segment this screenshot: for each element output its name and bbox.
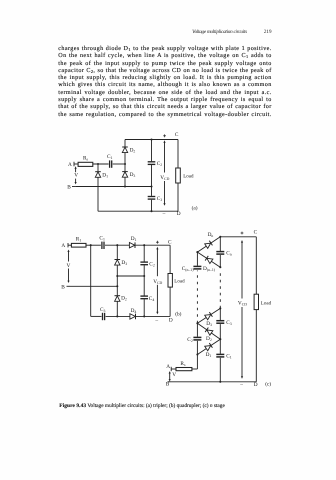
node B (a) (72, 186, 76, 188)
svg-text:D: D (254, 382, 258, 388)
svg-text:B: B (166, 382, 170, 388)
wire top rail (c) (220, 236, 256, 238)
wire bottom bypass (a) (98, 210, 178, 212)
wire bottom line right (b) (136, 315, 171, 317)
svg-text:D: D (177, 211, 181, 217)
capacitor Cn-1 (193, 252, 201, 269)
svg-text:Load: Load (261, 300, 272, 306)
capacitor C4 (b) (140, 276, 148, 316)
load (c) (254, 294, 258, 309)
svg-text:Cn: Cn (226, 250, 232, 256)
svg-text:D2: D2 (130, 148, 136, 154)
diode D3 (b) (115, 245, 121, 286)
svg-text:D4: D4 (131, 308, 137, 314)
svg-text:C: C (254, 230, 258, 236)
resistor R1 (71, 243, 86, 247)
diode D3 (122, 164, 128, 187)
diode D1 (c) (197, 339, 220, 354)
node left bottom (c) (196, 353, 198, 355)
svg-text:D1: D1 (131, 236, 137, 242)
wire top rail (a) (125, 138, 178, 140)
node left mid (c) (196, 322, 198, 324)
wire right rail (c) (255, 237, 257, 382)
diode Dn (197, 237, 220, 252)
svg-text:R1: R1 (76, 237, 82, 243)
node A (b) (67, 243, 69, 247)
node right mid (c) (219, 307, 221, 309)
svg-text:V: V (74, 173, 78, 179)
svg-text:(a): (a) (192, 205, 198, 211)
dashed left column (c) (196, 271, 198, 324)
svg-text:C2: C2 (149, 262, 155, 268)
svg-text:VCD: VCD (160, 175, 169, 181)
capacitor C2 (c) (193, 323, 201, 354)
svg-text:Load: Load (183, 174, 194, 180)
label plus (b) (156, 241, 159, 244)
svg-text:D: D (169, 318, 173, 324)
diode D1 (95, 164, 101, 211)
label plus (a) (163, 134, 166, 137)
diode D2 (b) (115, 286, 121, 316)
node right lower (c) (219, 338, 221, 340)
wire R to column (c) (192, 355, 198, 370)
svg-text:C(n–1): C(n–1) (182, 266, 195, 272)
svg-text:Dn: Dn (208, 232, 214, 238)
svg-text:C1: C1 (99, 236, 105, 242)
diode D2 (122, 140, 128, 165)
svg-text:D1: D1 (206, 352, 212, 358)
svg-text:C3: C3 (157, 196, 163, 202)
diode D2 (c) (197, 323, 220, 339)
node left top (c) (196, 251, 198, 253)
source arrow V (b) (67, 250, 69, 284)
wire right rail (b) (169, 245, 171, 316)
svg-text:C4: C4 (149, 296, 155, 302)
svg-text:C3: C3 (226, 320, 232, 326)
svg-text:D3: D3 (206, 321, 212, 327)
wire left column (b) (90, 245, 92, 316)
wire R to C1 (93, 163, 109, 165)
svg-text:C2: C2 (187, 337, 193, 343)
svg-text:D3: D3 (121, 260, 127, 266)
wire R to C1 (b) (86, 244, 101, 246)
svg-text:A: A (166, 364, 170, 370)
svg-text:B: B (61, 285, 65, 291)
wire A to R (c) (171, 368, 176, 370)
svg-text:–: – (162, 211, 166, 217)
dashed right column (c) (219, 269, 221, 308)
diode D4 (b) (130, 314, 136, 320)
svg-text:Rs: Rs (180, 361, 186, 367)
svg-text:(c): (c) (265, 382, 271, 388)
wire B rail (a) (76, 185, 153, 187)
node top (c) (219, 236, 221, 238)
svg-text:C3: C3 (100, 307, 106, 313)
capacitor C2 (b) (140, 245, 148, 276)
capacitor Cn (216, 237, 224, 267)
resistor Rs (78, 162, 93, 166)
wire bottom rail (c) (171, 381, 256, 383)
wire mid link (b) (117, 275, 145, 277)
svg-text:C: C (168, 239, 172, 245)
load (a) (176, 168, 181, 183)
wire bottom line mid (b) (106, 315, 131, 317)
svg-text:V: V (172, 372, 176, 378)
wire B rail (b) (70, 285, 118, 287)
source arrow V (c) (169, 371, 171, 381)
svg-text:Rs: Rs (83, 155, 89, 161)
source arrow V (a) (75, 166, 77, 184)
wire D1 to corner (b) (135, 244, 170, 246)
wire C1 to column (113, 163, 125, 165)
capacitor C1 (b) (102, 242, 104, 249)
svg-text:C: C (175, 132, 179, 138)
svg-text:D2: D2 (121, 296, 127, 302)
node B (c) (168, 381, 172, 383)
diode Dn-1 (197, 252, 220, 267)
svg-text:V: V (67, 263, 71, 269)
svg-text:(b): (b) (175, 312, 181, 318)
node A (c) (170, 367, 172, 371)
svg-text:B: B (67, 184, 71, 190)
svg-text:Load: Load (174, 278, 185, 284)
node right upper (c) (219, 266, 221, 268)
svg-text:D2: D2 (206, 336, 212, 342)
svg-text:D(n–1): D(n–1) (203, 266, 216, 272)
capacitor C1 (110, 160, 112, 167)
svg-text:A: A (61, 243, 65, 249)
wire bottom line left (b) (91, 315, 102, 317)
svg-text:D3: D3 (130, 172, 136, 178)
svg-text:VCD: VCD (238, 301, 247, 307)
capacitor C3 (c) (216, 308, 224, 339)
resistor Rs (c) (176, 368, 192, 371)
output arrow VCD (b) (156, 247, 158, 315)
svg-text:D1: D1 (102, 172, 108, 178)
svg-text:VCD: VCD (153, 279, 162, 285)
svg-text:C2: C2 (157, 161, 163, 167)
load (b) (168, 274, 172, 288)
output arrow VCD (a) (163, 140, 165, 206)
svg-text:A: A (68, 162, 72, 168)
wire A to R (74, 163, 78, 165)
capacitor C3 (b) (103, 313, 105, 320)
diode D3 (c) (197, 308, 220, 323)
svg-text:–: – (154, 318, 158, 324)
svg-text:C1: C1 (226, 354, 232, 360)
wire C1 to D1 (b) (105, 244, 130, 246)
capacitor C1 (c) (216, 339, 224, 382)
wire right rail (a) (177, 140, 179, 212)
output arrow VCD (c) (241, 240, 243, 379)
capacitor C3 (a) (148, 187, 156, 212)
label plus (c) (241, 232, 244, 235)
node B (b) (67, 285, 71, 287)
junction dot A line (97, 163, 126, 165)
node A (73, 162, 75, 166)
wire A to R (b) (68, 244, 71, 246)
diode D1 (b) (129, 242, 135, 248)
capacitor C2 (a) (148, 140, 156, 187)
svg-text:–: – (239, 382, 243, 388)
svg-text:C1: C1 (107, 154, 113, 160)
